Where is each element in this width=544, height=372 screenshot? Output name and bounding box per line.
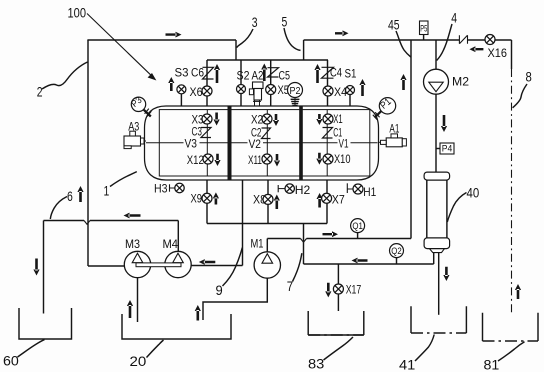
leader 60 [18,340,45,357]
wire S1 stub [349,94,351,106]
wire S3 stub [180,94,182,107]
arrow up beside S3 [168,77,174,91]
wire column left stub [433,253,435,264]
wire S2 pipe x=241 [240,60,242,106]
wire line G right (y=220.5) [90,220,178,222]
check valve C4 [322,67,334,78]
wire M2 riser upper [435,40,437,69]
svg-text:1: 1 [104,184,110,200]
wire 45-line x=411 [410,40,412,239]
wire column outlet pipe x=438.7 [438,253,440,315]
svg-text:C2: C2 [251,126,262,140]
wire step L1-L2 at x=236 [235,40,237,60]
arrow up beside X7 [317,193,323,208]
arrow up tank81 feed [515,284,521,299]
wire C4-X4 pipe x=327.5 [327,60,329,106]
wire M2 to column [435,94,437,172]
wire C6-X6 pipe x=207 [206,60,208,106]
leader 1 [110,172,137,187]
svg-text:X7: X7 [332,193,345,207]
svg-text:A1: A1 [389,122,399,136]
leader 45 [396,31,411,57]
level sensor H2 [277,185,279,192]
vessel 1 outer shell [145,106,379,180]
valve X8 [263,194,273,204]
leader 2 [42,62,88,89]
vessel centerline segment d [351,142,378,144]
crossing hop on line C at x=303.5 [301,239,307,243]
leader 6 [50,197,67,220]
wire X17 drain pipe x=338.4 [337,264,339,311]
svg-text:P4: P4 [442,144,453,155]
svg-text:X12: X12 [187,153,204,167]
wire drop pipe x=303.5 [303,224,305,265]
svg-text:P5: P5 [420,24,427,34]
tank 41 bottom dashdot [411,332,466,334]
leader 40 [447,193,466,223]
gauge P2 [288,83,303,98]
wire X7 pipe x=327 [326,180,328,224]
wire V1 internal pipe [326,110,328,176]
valve X9 [202,193,212,203]
tank 20 [122,314,231,339]
leader 5 [284,28,301,50]
arrow up beside 6 [77,186,83,202]
arrow down below M2 [441,115,447,132]
leader 8 [513,84,527,108]
wire header L1 (y=40) [87,39,236,41]
svg-text:81: 81 [484,358,500,372]
wire step L2-L3 at x=303.6 [303,40,305,60]
svg-text:C3: C3 [192,125,203,139]
arrow down beside X17 [325,283,331,298]
pump M1 [254,252,280,278]
arrow up beside C6 [214,64,220,83]
svg-text:X1: X1 [333,112,343,126]
wire tank60 downpipe x=43.5 [43,221,45,314]
tank 81 [483,313,539,341]
arrow left on line D [352,258,368,264]
valve X2 [262,114,272,124]
svg-text:A3: A3 [128,120,139,134]
valve X4 [323,86,333,96]
svg-text:41: 41 [399,358,415,372]
svg-text:3: 3 [252,15,258,31]
wire M3 suction x=137.5 [137,278,139,322]
arrow right on line C [323,231,339,237]
svg-text:X17: X17 [346,283,362,297]
node junction: left riser top corner [87,39,89,40]
wire C5-X5 pipe x=270.7 [270,60,272,106]
flow meter Q1 [351,219,365,233]
wire X9 pipe x=207 [206,180,208,224]
level sensor H1 [346,183,348,193]
wire X8 pipe x=268 [267,180,269,224]
wire M1 suction [203,278,267,320]
svg-text:2: 2 [37,85,43,101]
svg-text:P2: P2 [290,85,301,97]
wire Q1 stem [357,233,359,239]
svg-text:M2: M2 [452,75,469,89]
tank 60 [19,308,72,339]
valve X16 [485,35,495,45]
arrow up beside C5 [261,64,267,82]
svg-text:V3: V3 [185,137,198,151]
arrow up M1 suction [195,305,201,321]
leader 9 [223,248,243,287]
wire line C right (y=238.5) [307,238,412,240]
wire V2 internal pipe [266,110,268,176]
arrow left M4 inlet [199,259,216,265]
valve X5 [266,85,276,95]
svg-text:Q2: Q2 [391,246,402,257]
valve X11 [262,154,272,164]
wire V2 drain x=242.5 [242,180,244,266]
leader 20 [147,340,164,358]
wire left riser x=88 [87,40,89,266]
svg-text:S1: S1 [345,67,357,81]
filter column 40 [424,172,450,180]
valve X1 [323,114,333,124]
pump M3 [124,251,150,277]
tank 81 bottom dashdot [483,340,539,342]
transmitter P5 [420,21,429,35]
leader 7 [293,253,302,281]
arrow up beside C4 [314,64,320,83]
sensor S3 [177,85,186,94]
check valve C2 [262,128,271,139]
check valve C5 [268,68,279,77]
vessel centerline segment a [146,142,184,144]
svg-text:X10: X10 [334,152,351,166]
wire line C left (y=238.5) [267,238,300,240]
pointer 100 arrow [87,14,152,76]
arrow down tank60 feed [33,259,39,276]
wire M1 discharge stem [266,239,268,253]
valve X10 [323,154,333,164]
svg-text:X6: X6 [190,85,203,99]
wire P5 stem [423,35,425,41]
arrow down beside X3 [214,113,220,126]
vessel partition 2 [299,106,303,180]
valve X17 [333,284,343,294]
leader 41 [415,335,434,362]
svg-text:H2: H2 [295,183,311,197]
flow meter Q2 [390,244,404,258]
tank 83 bottom dashdot [308,334,364,336]
arrow up M3 suction [127,300,133,318]
leader 83 [324,337,354,360]
svg-text:7: 7 [287,279,293,295]
svg-text:40: 40 [467,186,480,202]
valve X12 [203,154,213,164]
wire line G left (y=220.5) [44,220,85,222]
svg-text:M3: M3 [125,237,140,251]
arrow down beside X12 [214,154,220,166]
svg-text:S2: S2 [237,69,250,83]
arrow left on line G [124,213,141,219]
arrow down beside X1 [316,114,322,125]
svg-text:H1: H1 [363,185,376,199]
vessel centerline segment b [200,142,248,144]
svg-text:M1: M1 [251,237,264,251]
svg-text:6: 6 [67,189,73,205]
sensor S2 [237,85,246,94]
wire header L2 (y=60) [207,59,328,61]
vessel partition 1 [228,106,232,180]
check valve C6 [203,67,214,79]
wire P4 stub [436,148,440,150]
svg-text:C4: C4 [330,66,342,80]
svg-text:60: 60 [3,354,19,370]
svg-text:S3: S3 [175,66,189,80]
wire bottom manifold H (y=223.5) [207,223,327,225]
arrow left beside X16 [469,46,483,52]
tank 41 [411,306,466,333]
svg-text:100: 100 [68,6,87,22]
valve X3 [202,114,212,124]
arrow up beside X8 [274,195,280,210]
vessel centerline segment c [263,142,338,144]
nozzle A1 [386,138,402,147]
svg-text:8: 8 [526,70,532,86]
arrow down column outlet [443,267,449,281]
svg-text:C1: C1 [333,126,342,140]
shaft coupling M3-M4 [136,263,181,267]
svg-text:C5: C5 [279,69,291,83]
actuator A2 [253,82,264,89]
check valve C1 [323,128,333,139]
arrow flow right on L3 [335,30,349,36]
pump M4 [165,251,191,277]
valve X7 [322,193,332,203]
wire M3 feed from riser [88,265,124,267]
arrow up beside S1 [359,79,365,96]
leader 3 [237,29,253,48]
arrow up on 45-line [400,74,406,90]
pump M2 [424,69,449,94]
svg-text:M4: M4 [163,237,179,251]
transmitter P4 [440,143,454,154]
wire header L3 left part (y=40) [304,39,460,41]
pipe break symbol on L3 [459,35,467,44]
svg-text:9: 9 [216,283,223,299]
wire M4 top pipe x=178.3 [177,221,179,252]
wire Q2 stem [396,258,398,264]
wire chain line 8 (x=511.5) [511,40,513,69]
arrow flow right on L1 [166,32,182,38]
svg-text:20: 20 [130,354,147,370]
svg-text:4: 4 [451,10,457,26]
leader 81 [498,342,525,361]
gauge P1 [379,98,395,114]
valve X6 [202,86,212,96]
leader 4 [437,24,452,61]
sensor S1 [346,86,355,95]
svg-text:X9: X9 [191,192,203,206]
crossing hop on line G at x=87 [84,221,90,225]
check valve C3 [201,128,211,138]
svg-text:Q1: Q1 [352,221,363,232]
wire M4 discharge right [191,265,242,267]
arrow up beside X9 [213,192,219,204]
wire header L3 right part (y=40) [468,39,512,41]
svg-text:H3: H3 [154,182,168,196]
wire line D (y=264) [304,263,434,265]
gauge P3 [131,97,145,111]
arrow down beside X10 [316,153,322,165]
tank 83 [308,311,364,335]
nozzle A3 [124,136,141,146]
arrow down beside X11 [274,154,280,167]
svg-text:C6: C6 [191,66,204,80]
svg-text:X16: X16 [488,46,508,60]
svg-text:A2: A2 [252,69,264,83]
svg-text:X11: X11 [248,153,262,167]
vessel inner liner rectangle [159,110,369,176]
svg-text:83: 83 [308,357,324,372]
arrow down beside X2 [273,114,279,126]
wire V3 internal pipe [206,110,208,176]
svg-text:45: 45 [388,18,400,34]
